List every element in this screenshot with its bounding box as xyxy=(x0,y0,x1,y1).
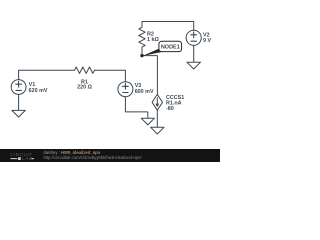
label V2 value xyxy=(203,33,211,44)
CircuitLab logo xyxy=(10,150,44,162)
wire V2 bottom to ground xyxy=(193,45,195,62)
svg-text:600 mV: 600 mV xyxy=(135,89,154,95)
current source CCCS1 xyxy=(152,94,162,110)
label V3 value xyxy=(135,83,154,95)
footer bar xyxy=(0,149,220,162)
wire V3 bottom to ground xyxy=(125,97,147,119)
wire R2 bottom to node xyxy=(141,47,143,56)
resistor R1 xyxy=(75,67,95,73)
voltage source V1 xyxy=(11,80,26,95)
svg-text:LAB: LAB xyxy=(22,156,33,161)
ground (V1) xyxy=(12,94,25,117)
label R2 value xyxy=(147,32,159,43)
node NODE1 callout xyxy=(142,41,181,56)
wire R1 right to V3 top xyxy=(95,70,126,82)
wire node to CCCS1 top xyxy=(142,56,157,95)
ground (V3) xyxy=(141,118,154,125)
wire CCCS1 bottom to ground xyxy=(156,110,158,127)
voltage source V2 xyxy=(186,30,201,45)
svg-text:620 mV: 620 mV xyxy=(29,88,48,94)
footer credit text xyxy=(44,151,101,156)
ground (CCCS1) xyxy=(151,127,164,134)
svg-text:NODE1: NODE1 xyxy=(161,45,180,51)
svg-text:-80: -80 xyxy=(166,106,174,112)
wire V1 top to R1 left xyxy=(19,70,75,80)
wire R2 top to V2 top xyxy=(142,22,194,31)
voltage source V3 xyxy=(118,82,133,97)
label CCCS1 value xyxy=(166,95,184,112)
resistor R2 xyxy=(139,27,145,47)
ground (V2) xyxy=(187,62,201,69)
svg-text:9 V: 9 V xyxy=(203,38,211,44)
label V1 value xyxy=(29,82,48,94)
svg-text:220 Ω: 220 Ω xyxy=(77,85,92,91)
label R1 value xyxy=(77,79,92,90)
node NODE1 junction dot xyxy=(140,54,143,57)
svg-text:1 kΩ: 1 kΩ xyxy=(147,37,159,43)
